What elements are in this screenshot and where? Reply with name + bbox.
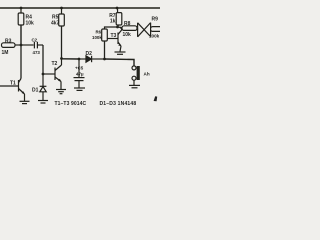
transistor T1 9014 (0, 45, 25, 101)
capacitor C5 47u (electrolytic to ground) (74, 59, 85, 88)
piezo sounder AB (132, 66, 150, 85)
svg-text:100k: 100k (149, 34, 160, 39)
svg-text:C2: C2 (32, 38, 38, 43)
svg-text:100k: 100k (92, 35, 102, 40)
svg-text:T2: T2 (52, 61, 58, 67)
ground under D1 (38, 101, 48, 104)
svg-text:1k: 1k (110, 18, 116, 24)
svg-text:47μ: 47μ (76, 72, 84, 77)
svg-text:1M: 1M (2, 50, 9, 56)
node: rail junction at R5 (60, 7, 63, 10)
node: D2 cathode / R6 junction (103, 58, 106, 61)
ground under piezo (129, 85, 140, 87)
capacitor C2 473 (21, 38, 43, 56)
svg-text:+C5: +C5 (75, 66, 84, 71)
svg-text:473: 473 (33, 50, 41, 55)
svg-text:D1–D3 1N4148: D1–D3 1N4148 (100, 101, 137, 107)
transistor T2 9014 (43, 59, 62, 90)
svg-text:4k7: 4k7 (51, 21, 60, 27)
node B: T2 base / D1 junction (42, 73, 45, 76)
node: rail junction at R4 (20, 7, 23, 10)
ground under T3 (115, 52, 126, 54)
lamp/transducer symbol (bowtie) (138, 23, 151, 37)
node: T2 collector / R5 / C5 junction (60, 57, 63, 60)
transistor T3 9014 (107, 27, 122, 52)
diode D1 1N4148 (32, 74, 46, 100)
svg-text:Ah: Ah (144, 72, 150, 77)
stray mark (page artifact, bottom right) (154, 96, 158, 101)
svg-text:D1: D1 (32, 88, 39, 94)
resistor R4 10k (18, 8, 34, 45)
svg-text:10k: 10k (123, 32, 132, 38)
wire: collector node to D2 anode node (62, 58, 80, 60)
resistor R3 1M (2, 39, 22, 57)
ground under T1 (20, 101, 30, 103)
resistor R9 100k (149, 17, 162, 39)
ground under T2 (56, 90, 66, 94)
wire: D2 node to piezo (105, 59, 135, 66)
node: R7 / R8 / T3 collector junction (116, 26, 119, 29)
wire: C2 to T2 base node (42, 45, 44, 74)
node: rail junction at R7 (116, 7, 119, 10)
node: C5 / D2 junction (78, 58, 81, 61)
resistor R8 10k (118, 21, 139, 38)
resistor R6 100k (92, 27, 118, 59)
wire: +V power rail (0, 7, 160, 9)
svg-text:R9: R9 (152, 17, 159, 23)
svg-text:T1–T3 9014C: T1–T3 9014C (55, 101, 87, 107)
svg-text:10k: 10k (26, 21, 35, 27)
diode D2 1N4148 (79, 51, 105, 62)
ground under C5 (74, 88, 85, 90)
resistor R5 4k7 (51, 8, 64, 59)
resistor R7 1k (109, 8, 122, 27)
node A: R3/R4/T1 collector junction (20, 44, 23, 47)
svg-text:R6: R6 (96, 30, 102, 35)
